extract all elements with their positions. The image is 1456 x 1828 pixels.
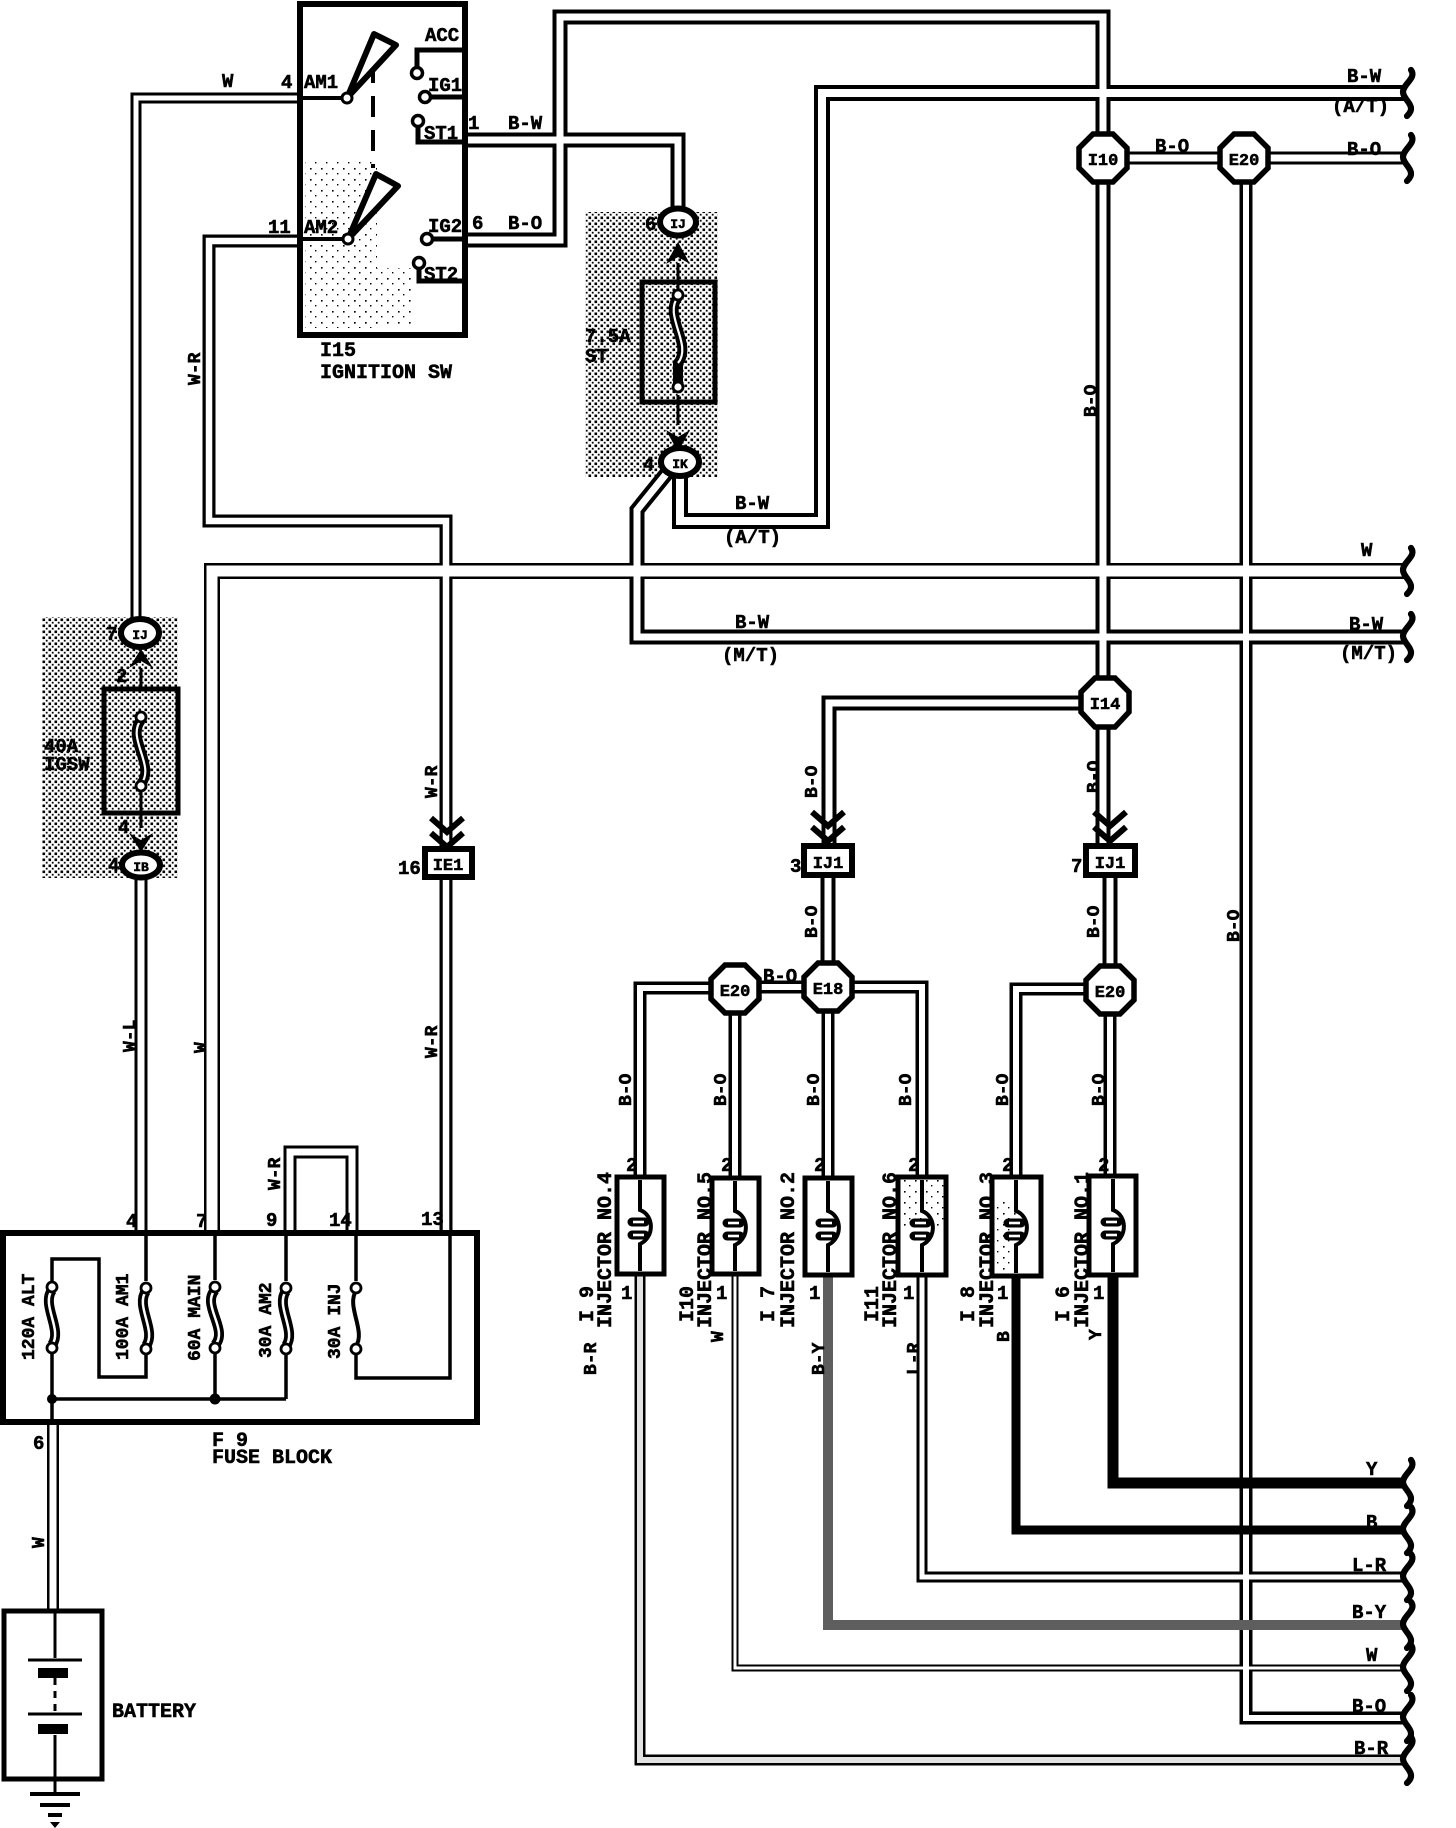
svg-text:W: W [222, 71, 234, 93]
svg-text:4: 4 [643, 454, 654, 476]
svg-text:4: 4 [118, 817, 129, 839]
svg-text:1: 1 [468, 113, 479, 135]
svg-text:B-O: B-O [1225, 909, 1245, 942]
svg-text:B-O: B-O [1155, 136, 1189, 158]
svg-text:16: 16 [398, 858, 421, 880]
svg-text:6: 6 [33, 1433, 44, 1455]
svg-text:E20: E20 [720, 983, 751, 1002]
svg-text:30A INJ: 30A INJ [326, 1283, 346, 1359]
svg-text:B-O: B-O [897, 1073, 917, 1106]
svg-text:B-O: B-O [1085, 905, 1105, 938]
svg-text:B-O: B-O [805, 1073, 825, 1106]
svg-text:2: 2 [1002, 1155, 1013, 1177]
svg-text:4: 4 [108, 855, 119, 877]
svg-text:IE1: IE1 [433, 857, 464, 876]
svg-text:1: 1 [621, 1283, 632, 1305]
svg-text:B-W: B-W [1347, 66, 1382, 88]
svg-text:1: 1 [809, 1283, 820, 1305]
svg-text:4: 4 [281, 72, 292, 94]
svg-text:13: 13 [421, 1209, 444, 1231]
svg-text:B-R: B-R [582, 1342, 602, 1375]
svg-text:B-O: B-O [712, 1073, 732, 1106]
svg-text:B-W: B-W [1349, 614, 1384, 636]
svg-text:E18: E18 [813, 981, 844, 1000]
svg-text:L-R: L-R [905, 1342, 925, 1375]
svg-text:B-O: B-O [994, 1073, 1014, 1106]
svg-text:W-R: W-R [423, 765, 443, 798]
svg-text:W-R: W-R [423, 1025, 443, 1058]
svg-text:6: 6 [645, 214, 656, 236]
svg-text:ST1: ST1 [424, 123, 458, 145]
svg-text:30A AM2: 30A AM2 [257, 1282, 277, 1358]
svg-text:E20: E20 [1095, 984, 1126, 1003]
svg-text:B-W: B-W [508, 113, 543, 135]
svg-text:Y: Y [1087, 1329, 1107, 1340]
svg-text:W-L: W-L [121, 1020, 141, 1052]
svg-text:B-W: B-W [735, 612, 770, 634]
svg-text:ST: ST [585, 346, 608, 368]
svg-text:IGSW: IGSW [44, 754, 90, 776]
svg-text:B-O: B-O [1352, 1696, 1386, 1718]
svg-text:IB: IB [133, 860, 149, 875]
svg-text:2: 2 [721, 1155, 732, 1177]
svg-text:I15: I15 [320, 340, 356, 363]
svg-text:B-O: B-O [1082, 384, 1102, 417]
svg-text:B-Y: B-Y [1352, 1602, 1387, 1624]
svg-text:FUSE BLOCK: FUSE BLOCK [212, 1447, 332, 1470]
svg-text:INJECTOR NO.5: INJECTOR NO.5 [695, 1172, 718, 1328]
svg-text:6: 6 [472, 213, 483, 235]
svg-text:4: 4 [126, 1211, 137, 1233]
svg-text:W-R: W-R [266, 1157, 286, 1190]
svg-text:(A/T): (A/T) [724, 527, 781, 549]
svg-text:W: W [192, 1042, 212, 1053]
svg-text:W: W [709, 1331, 729, 1342]
svg-text:7: 7 [196, 1211, 207, 1233]
svg-text:W-R: W-R [186, 352, 206, 385]
svg-text:3: 3 [790, 856, 801, 878]
svg-text:B-Y: B-Y [810, 1342, 830, 1375]
svg-text:AM1: AM1 [304, 72, 338, 94]
svg-text:(M/T): (M/T) [1340, 643, 1397, 665]
svg-text:IJ1: IJ1 [1095, 855, 1126, 874]
svg-text:IGNITION SW: IGNITION SW [320, 362, 452, 385]
svg-text:IJ: IJ [132, 628, 148, 643]
svg-text:AM2: AM2 [304, 217, 338, 239]
svg-text:11: 11 [268, 217, 291, 239]
svg-text:IJ: IJ [670, 217, 686, 232]
svg-text:B-R: B-R [1354, 1738, 1389, 1760]
svg-text:1: 1 [903, 1283, 914, 1305]
svg-text:2: 2 [908, 1155, 919, 1177]
svg-text:IK: IK [672, 457, 688, 472]
svg-text:B-O: B-O [803, 905, 823, 938]
svg-text:60A MAIN: 60A MAIN [186, 1275, 206, 1361]
svg-text:ST2: ST2 [424, 264, 458, 286]
svg-text:INJECTOR NO.4: INJECTOR NO.4 [595, 1172, 618, 1328]
svg-text:(M/T): (M/T) [722, 645, 779, 667]
svg-text:Y: Y [1366, 1459, 1378, 1481]
svg-text:I10: I10 [1088, 152, 1119, 171]
svg-text:7: 7 [1071, 856, 1082, 878]
svg-text:100A AM1: 100A AM1 [114, 1273, 134, 1360]
svg-text:B-O: B-O [803, 765, 823, 798]
svg-text:IJ1: IJ1 [813, 855, 844, 874]
svg-text:2: 2 [1098, 1155, 1109, 1177]
svg-text:2: 2 [814, 1155, 825, 1177]
svg-text:ACC: ACC [425, 25, 459, 47]
svg-text:W: W [1366, 1645, 1378, 1667]
svg-text:B-O: B-O [763, 966, 797, 988]
svg-text:B-O: B-O [508, 213, 542, 235]
svg-text:B-O: B-O [1085, 760, 1105, 793]
svg-text:7.5A: 7.5A [585, 326, 631, 348]
svg-text:IG2: IG2 [428, 216, 462, 238]
svg-text:B-O: B-O [1090, 1073, 1110, 1106]
svg-text:2: 2 [626, 1155, 637, 1177]
svg-text:INJECTOR NO.1: INJECTOR NO.1 [1072, 1172, 1095, 1328]
svg-text:B-W: B-W [735, 493, 770, 515]
svg-text:INJECTOR NO.6: INJECTOR NO.6 [880, 1172, 903, 1328]
svg-text:7: 7 [106, 624, 117, 646]
svg-text:B: B [995, 1331, 1015, 1342]
svg-text:9: 9 [266, 1210, 277, 1232]
svg-text:120A ALT: 120A ALT [20, 1273, 40, 1360]
svg-text:L-R: L-R [1352, 1555, 1387, 1577]
svg-text:INJECTOR NO.3: INJECTOR NO.3 [977, 1172, 1000, 1328]
svg-text:I14: I14 [1090, 696, 1121, 715]
svg-text:E20: E20 [1229, 152, 1260, 171]
svg-text:B-O: B-O [1347, 139, 1381, 161]
svg-text:14: 14 [329, 1210, 352, 1232]
svg-text:W: W [1361, 540, 1373, 562]
svg-text:B: B [1366, 1512, 1377, 1534]
svg-text:BATTERY: BATTERY [112, 1701, 196, 1724]
svg-text:IG1: IG1 [428, 75, 462, 97]
svg-text:INJECTOR NO.2: INJECTOR NO.2 [778, 1172, 801, 1328]
svg-text:B-O: B-O [617, 1073, 637, 1106]
svg-text:2: 2 [116, 666, 127, 688]
svg-text:(A/T): (A/T) [1332, 96, 1389, 118]
svg-text:W: W [30, 1537, 50, 1548]
